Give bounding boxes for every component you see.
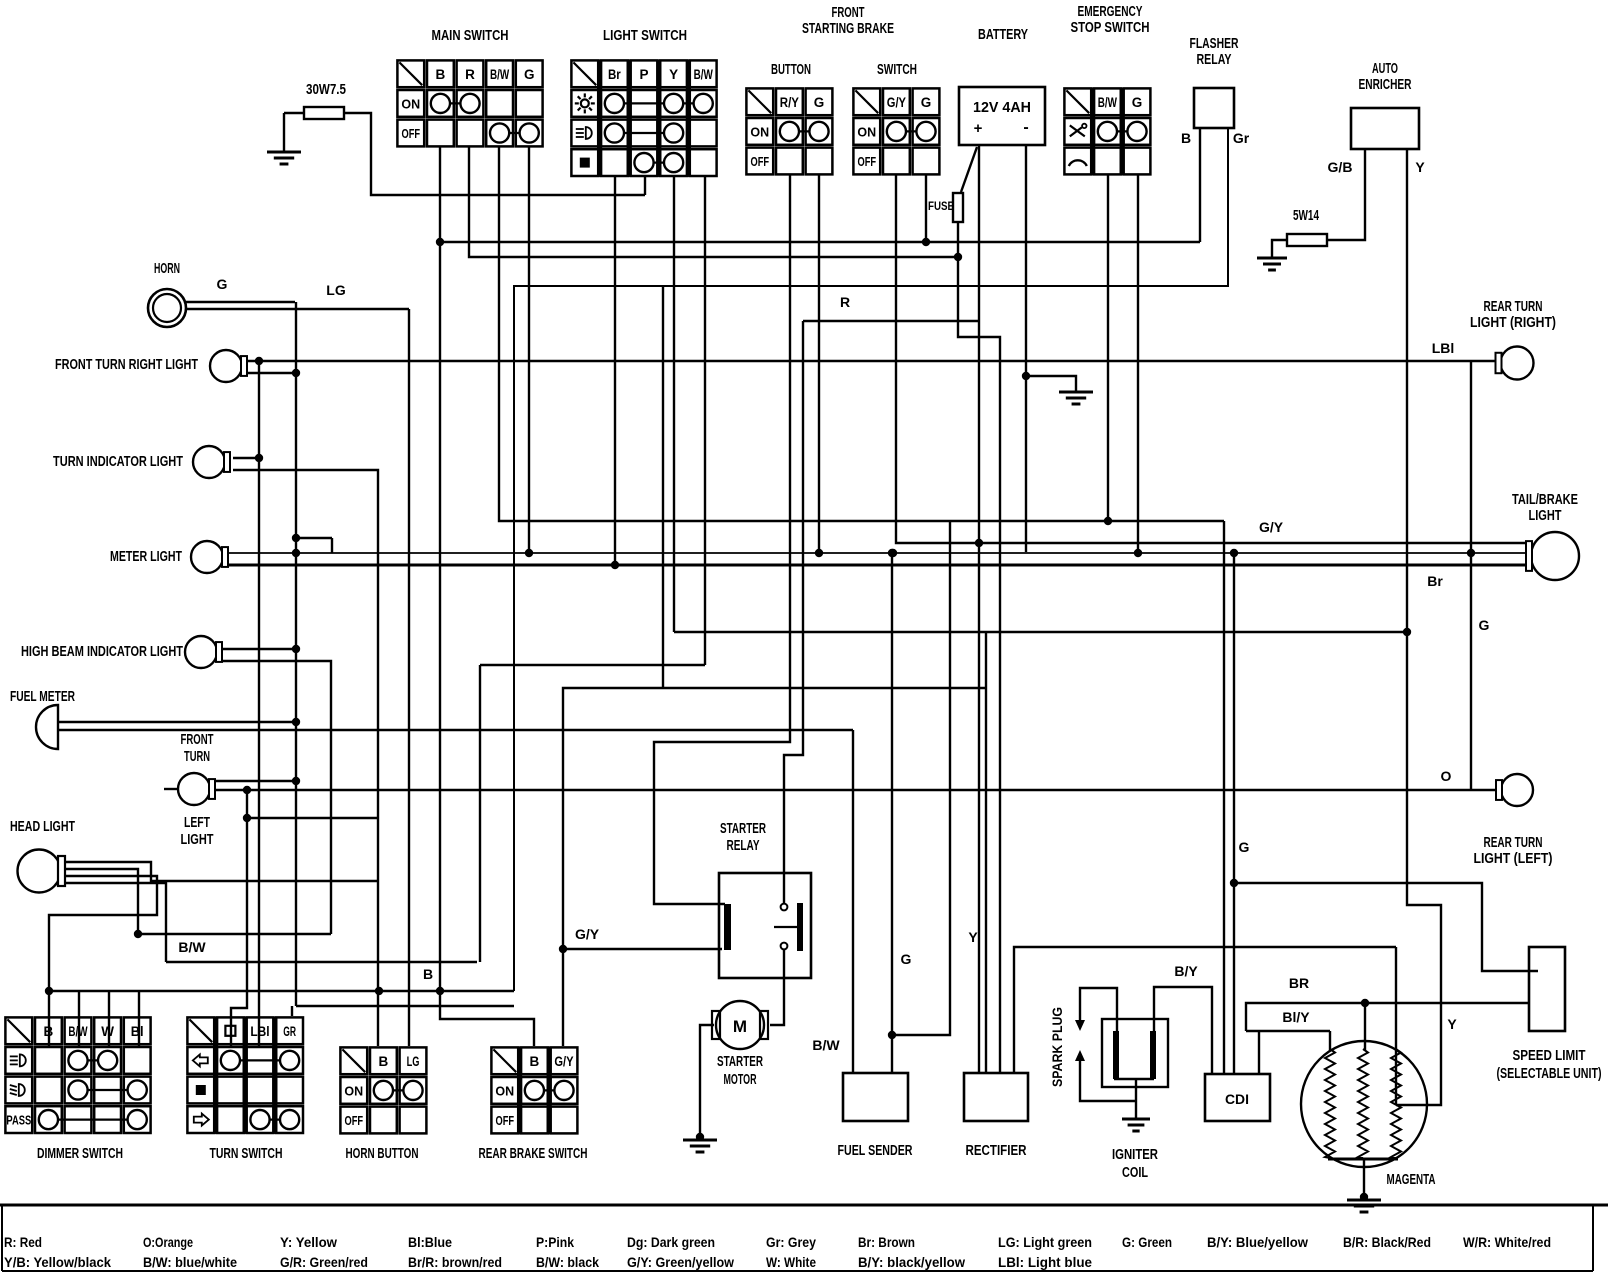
svg-text:B: B [423,966,433,982]
svg-text:Dg: Dark green: Dg: Dark green [627,1234,715,1250]
svg-text:LIGHT: LIGHT [181,832,214,848]
svg-text:B/W: B/W [68,1024,87,1039]
svg-text:ON: ON [495,1084,514,1098]
svg-text:STOP SWITCH: STOP SWITCH [1071,20,1150,36]
svg-text:CDI: CDI [1225,1091,1249,1107]
svg-text:LEFT: LEFT [184,815,210,831]
svg-text:O: O [1441,768,1452,784]
svg-text:REAR TURN: REAR TURN [1484,835,1543,851]
svg-text:EMERGENCY: EMERGENCY [1078,4,1143,20]
svg-text:LG: Light green: LG: Light green [998,1234,1092,1250]
svg-text:G: G [814,95,825,110]
svg-text:COIL: COIL [1122,1165,1148,1181]
svg-text:G/Y: G/Y [887,95,906,110]
svg-text:FRONT: FRONT [181,732,214,748]
svg-text:G/B: G/B [1328,159,1353,175]
svg-text:BATTERY: BATTERY [978,27,1028,43]
svg-text:O:Orange: O:Orange [143,1234,193,1250]
svg-text:REAR TURN: REAR TURN [1484,299,1543,315]
svg-text:W: W [101,1024,114,1039]
svg-text:PASS: PASS [6,1114,31,1128]
svg-text:STARTING BRAKE: STARTING BRAKE [802,21,894,37]
svg-text:B/W: black: B/W: black [536,1254,599,1270]
svg-text:TURN INDICATOR LIGHT: TURN INDICATOR LIGHT [53,454,183,470]
svg-text:B/R: Black/Red: B/R: Black/Red [1343,1234,1431,1250]
svg-text:ON: ON [401,97,420,111]
svg-text:G/Y: G/Y [575,926,600,942]
svg-text:B: B [379,1054,389,1069]
svg-text:B: B [44,1024,54,1039]
svg-text:OFF: OFF [858,155,877,169]
svg-text:R/Y: R/Y [780,95,799,110]
svg-text:FRONT TURN RIGHT LIGHT: FRONT TURN RIGHT LIGHT [55,357,198,373]
svg-text:Br: Br [608,67,621,82]
svg-text:Br: Br [1427,573,1443,589]
svg-text:(SELECTABLE UNIT): (SELECTABLE UNIT) [1497,1066,1602,1082]
svg-text:G: G [1479,617,1490,633]
svg-text:LIGHT (LEFT): LIGHT (LEFT) [1474,851,1553,867]
svg-text:P: P [639,67,648,82]
svg-text:AUTO: AUTO [1372,61,1398,77]
svg-text:R: Red: R: Red [4,1234,42,1250]
svg-text:Bl/Y: Bl/Y [1282,1009,1310,1025]
svg-text:Gr: Grey: Gr: Grey [766,1234,816,1250]
svg-text:ON: ON [750,125,769,139]
svg-text:G: G [921,95,932,110]
svg-text:B/Y: Blue/yellow: B/Y: Blue/yellow [1207,1234,1308,1250]
svg-text:W/R: White/red: W/R: White/red [1463,1234,1551,1250]
svg-text:FUSE: FUSE [928,199,954,213]
svg-text:RELAY: RELAY [1197,52,1232,68]
svg-text:OFF: OFF [496,1114,515,1128]
svg-text:FUEL METER: FUEL METER [10,689,75,705]
svg-text:RECTIFIER: RECTIFIER [966,1143,1027,1159]
svg-text:M: M [733,1017,747,1036]
svg-text:DIMMER SWITCH: DIMMER SWITCH [37,1146,123,1162]
svg-text:OFF: OFF [751,155,770,169]
svg-text:B: B [1181,130,1191,146]
svg-text:G: G [901,951,912,967]
svg-text:STARTER: STARTER [720,821,766,837]
svg-text:LG: LG [326,282,346,298]
svg-text:OFF: OFF [345,1114,364,1128]
svg-text:TURN SWITCH: TURN SWITCH [210,1146,283,1162]
svg-text:Bl:Blue: Bl:Blue [408,1234,452,1250]
svg-text:METER LIGHT: METER LIGHT [110,549,182,565]
svg-text:B/Y: black/yellow: B/Y: black/yellow [858,1254,965,1270]
svg-text:ON: ON [857,125,876,139]
svg-text:P:Pink: P:Pink [536,1234,574,1250]
svg-text:B: B [530,1054,540,1069]
svg-text:12V 4AH: 12V 4AH [973,99,1031,116]
svg-text:FLASHER: FLASHER [1190,36,1239,52]
svg-text:Y: Yellow: Y: Yellow [280,1234,337,1250]
svg-text:Y/B: Yellow/black: Y/B: Yellow/black [4,1254,111,1270]
svg-text:B/W: B/W [1098,95,1117,110]
svg-text:Y: Y [669,67,678,82]
svg-text:Y: Y [1415,159,1425,175]
svg-text:W: White: W: White [766,1254,816,1270]
svg-text:B/W: blue/white: B/W: blue/white [143,1254,237,1270]
svg-text:B/W: B/W [490,67,509,82]
svg-text:G: G [1132,95,1143,110]
svg-text:HORN: HORN [154,261,180,277]
svg-text:SWITCH: SWITCH [877,62,917,78]
svg-text:30W7.5: 30W7.5 [306,82,346,98]
svg-text:TAIL/BRAKE: TAIL/BRAKE [1512,492,1578,508]
svg-text:G/Y: G/Y [554,1054,573,1069]
svg-text:BR: BR [1289,975,1309,991]
svg-text:MAGENTA: MAGENTA [1387,1172,1436,1188]
svg-text:+: + [974,120,983,137]
svg-text:Br: Brown: Br: Brown [858,1234,915,1250]
svg-text:LBl: LBl [1432,340,1455,356]
svg-text:SPEED LIMIT: SPEED LIMIT [1513,1048,1586,1064]
svg-text:ENRICHER: ENRICHER [1359,77,1412,93]
svg-text:Gr: Gr [1233,130,1250,146]
svg-text:Y: Y [1447,1016,1457,1032]
svg-text:BUTTON: BUTTON [771,62,811,78]
svg-text:LIGHT: LIGHT [1529,508,1562,524]
svg-text:Br/R: brown/red: Br/R: brown/red [408,1254,502,1270]
svg-text:R: R [840,294,850,310]
svg-text:G: G [1239,839,1250,855]
svg-text:MOTOR: MOTOR [724,1072,757,1088]
svg-text:G/R: Green/red: G/R: Green/red [280,1254,368,1270]
svg-text:HORN BUTTON: HORN BUTTON [346,1146,419,1162]
svg-text:B/W: B/W [178,939,206,955]
svg-text:5W14: 5W14 [1293,208,1319,224]
svg-text:G: Green: G: Green [1122,1234,1172,1250]
svg-text:MAIN SWITCH: MAIN SWITCH [432,28,509,44]
svg-text:G: G [524,67,535,82]
svg-text:G: G [217,276,228,292]
svg-text:RELAY: RELAY [727,838,760,854]
svg-text:LIGHT SWITCH: LIGHT SWITCH [603,28,687,44]
svg-text:R: R [465,67,475,82]
svg-text:HIGH BEAM INDICATOR LIGHT: HIGH BEAM INDICATOR LIGHT [21,644,183,660]
svg-text:-: - [1023,119,1028,136]
svg-text:FRONT: FRONT [832,5,865,21]
svg-text:ON: ON [344,1084,363,1098]
svg-text:REAR BRAKE SWITCH: REAR BRAKE SWITCH [479,1146,588,1162]
svg-text:OFF: OFF [402,127,421,141]
svg-text:Y: Y [968,929,978,945]
svg-text:FUEL SENDER: FUEL SENDER [838,1143,913,1159]
svg-text:G/Y: G/Y [1259,519,1284,535]
svg-text:B/W: B/W [694,67,713,82]
svg-text:LBl: LBl [250,1024,269,1039]
svg-text:LG: LG [407,1054,420,1069]
svg-text:B: B [436,67,446,82]
svg-text:GR: GR [283,1024,296,1039]
svg-text:G/Y: Green/yellow: G/Y: Green/yellow [627,1254,734,1270]
svg-text:STARTER: STARTER [717,1054,763,1070]
svg-text:LBl: Light blue: LBl: Light blue [998,1254,1092,1270]
svg-text:TURN: TURN [184,749,210,765]
svg-text:SPARK PLUG: SPARK PLUG [1050,1007,1065,1087]
svg-text:HEAD LIGHT: HEAD LIGHT [10,819,75,835]
svg-text:LIGHT (RIGHT): LIGHT (RIGHT) [1470,315,1556,331]
svg-text:IGNITER: IGNITER [1112,1147,1158,1163]
svg-text:B/W: B/W [812,1037,840,1053]
svg-text:B/Y: B/Y [1174,963,1198,979]
svg-text:Bl: Bl [131,1024,144,1039]
